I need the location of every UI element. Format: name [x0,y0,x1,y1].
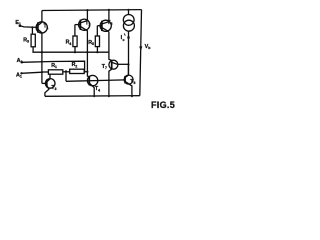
svg-text:T1: T1 [43,24,48,30]
svg-text:E1: E1 [15,20,21,26]
node T4 emitter / bottom rail [93,95,95,97]
svg-text:c: c [123,38,125,42]
current source Ic [121,10,135,42]
bottom rail [45,95,140,98]
svg-text:T5: T5 [107,20,112,26]
terminal E1 [15,20,21,27]
wire divider down to T4 base line [65,71,67,81]
transistor T4 [87,75,100,96]
resistor R2 [70,62,85,73]
wire A2 across [22,61,85,71]
transistor T3 [45,74,57,96]
transistor T2 [75,10,91,52]
resistor R5 [88,26,99,53]
node T7 collector / Ic wire [127,63,129,65]
node A2 drop / R2 right [84,71,86,73]
top power rail [42,9,142,12]
node T7 emitter / bottom rail [108,95,110,97]
terminal A2 [17,58,23,64]
wire R2 to T4 collector node [84,71,87,73]
wire T2 emitter down to T4 collector [87,52,89,77]
node T2 collector / top rail [86,9,88,11]
node T1 emitter / mid rail [41,51,43,53]
svg-text:R4: R4 [66,40,72,46]
wire R1 to R2 [63,71,70,73]
svg-text:T7: T7 [102,64,107,70]
wire E1 to T1 base [20,26,38,28]
wire T1 emitter to mid rail [41,33,43,52]
wire A1 to node [22,72,42,73]
wire T7 collector to Ic node [117,63,128,65]
arrow output Vb [139,46,142,51]
svg-text:R5: R5 [88,40,94,46]
transistor T1 [36,11,49,34]
resistor R1 [42,63,63,74]
wire Ic down to T7/T6 collectors [128,31,130,75]
node T5 collector / top rail [108,9,110,11]
svg-text:FIG.5: FIG.5 [151,100,175,110]
resistor R4 [66,25,78,53]
output line Vb [140,10,142,96]
svg-text:R2: R2 [72,62,78,68]
mid rail [32,51,109,53]
transistor T7 [102,32,118,97]
node T6 emitter / bottom rail [131,95,133,97]
node R1/R2 divider [65,70,67,72]
svg-text:A2: A2 [17,58,23,64]
svg-text:R1: R1 [51,63,57,69]
transistor T6 [124,64,135,96]
transistor T5 [97,10,112,32]
node T4 collector [86,71,88,73]
node A1 / divider vertical [41,71,43,73]
terminal A1 [16,72,23,78]
svg-text:T6: T6 [130,79,135,85]
svg-text:Vb: Vb [145,44,152,50]
arrow current direction on Ic wire [127,37,130,42]
svg-text:T3: T3 [51,85,56,91]
node E1/R3 junction [31,26,33,28]
node R4 / mid rail [74,51,76,53]
node T2 emitter / mid rail [86,51,88,53]
svg-text:T4: T4 [95,86,100,92]
svg-text:T2: T2 [85,21,90,27]
node Ic / top rail [127,9,129,11]
wire to T3 base [42,82,47,84]
svg-text:R3: R3 [23,38,29,44]
resistor R3 [23,27,35,52]
node R5 / mid rail [96,51,98,53]
wire node vertical (T1 emitter to T3 base) [41,52,43,83]
base line T4/T6 [66,80,125,81]
